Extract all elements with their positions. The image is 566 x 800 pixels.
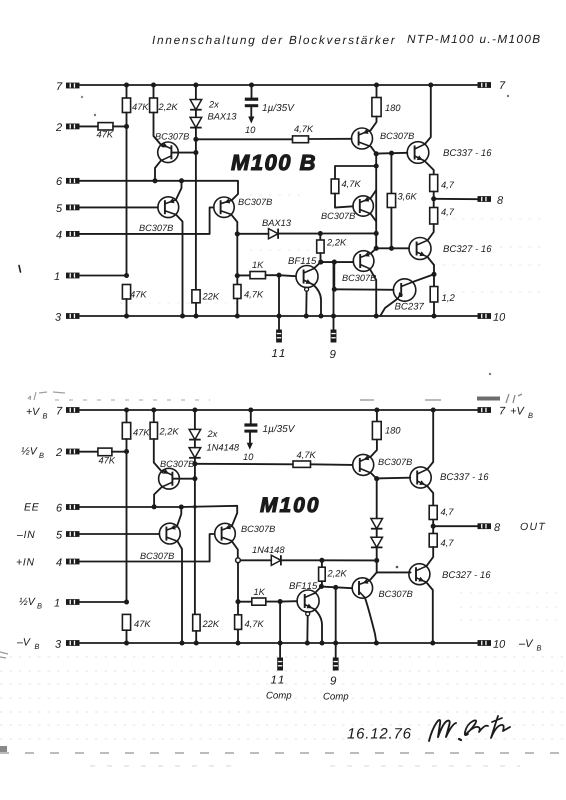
pin 4 left connector (M100B) — [66, 231, 80, 237]
node divider/pin1 (M100) — [124, 599, 129, 604]
wire Q17 collector — [427, 410, 433, 469]
resistor 1K (M100) — [252, 598, 266, 605]
wire bias vertical (M100) — [194, 464, 196, 615]
stray mark speck — [81, 96, 83, 98]
node top-rail/diodes (M100) — [192, 407, 197, 412]
node X collector/diode — [235, 231, 240, 236]
node Q11 collector/EE line — [152, 504, 157, 509]
wire diode to X2 — [278, 233, 320, 235]
pin 9 connector (M100) — [333, 658, 339, 671]
wire Q10 collector — [427, 257, 434, 275]
wire collector node to BC337 base (M100) — [377, 477, 411, 480]
wire Q12 collector — [371, 473, 377, 479]
wire Q1 base — [171, 152, 196, 154]
net label -VB right — [519, 639, 533, 647]
wire 1K to base node (M100) — [266, 601, 280, 603]
wire diodes to node (M100) — [376, 548, 378, 561]
wire 2.2K upper lead — [153, 85, 155, 98]
wire diode chain upper lead — [195, 85, 197, 99]
transistor Q1 BC307B (M100B) — [158, 142, 179, 163]
wire Q1 collector — [155, 161, 161, 181]
wire loop left — [335, 166, 376, 179]
pin 8 right connector (M100) — [478, 523, 492, 529]
node 3.6K/BC327 base — [389, 246, 394, 251]
node Q1 collector/pin6 line — [152, 178, 157, 183]
wire 4.7 to pin8 node — [433, 192, 435, 208]
pin 8 right connector (M100B) — [478, 196, 492, 202]
wire node X2 to vertical — [320, 232, 376, 234]
net label +VB right — [511, 407, 525, 415]
resistor 47K divider lower (M100) — [122, 614, 130, 630]
node top-rail/divider (M100) — [124, 407, 129, 412]
transistor Q14 BC307B diff-right (M100) — [215, 523, 236, 544]
node BF115 emitter/bottom-rail — [318, 313, 323, 318]
pin 11 connector (M100) — [277, 658, 283, 671]
wire diode chain upper lead (M100) — [194, 410, 196, 429]
diode D5 1N4148 (M100) — [189, 448, 201, 458]
node diff emitters — [179, 178, 184, 183]
node Q4 collector/bottom-rail — [180, 313, 185, 318]
wire Q7 emitter — [371, 248, 377, 253]
resistor 22K bias (M100) — [193, 614, 200, 631]
transistor Q6 BF115 (M100B) — [296, 266, 318, 288]
transistor Q10 BC327-16 (M100B) — [409, 238, 431, 260]
node pin8 (M100) — [431, 524, 436, 529]
node top-rail/diodes — [193, 82, 198, 87]
wire diode to 2.2K top (M100) — [281, 559, 322, 561]
node diode anode open (M100) — [236, 558, 241, 563]
pin 3 left connector (M100) — [66, 640, 80, 646]
wire to Q7 base — [321, 261, 354, 263]
transistor Q12 BC307B (M100) — [353, 454, 374, 475]
node Q7 emitter junction — [374, 246, 379, 251]
pin 6 left connector (M100B) — [66, 178, 80, 184]
node vertical/233 — [374, 231, 379, 236]
pin 2 left connector (M100B) — [66, 124, 80, 130]
wire 2.2K to Q1 emitter (M100) — [154, 439, 163, 473]
wire Q11 base — [172, 478, 195, 480]
pin 4 left connector (M100) — [66, 559, 80, 565]
resistor 4,7 lower (M100) — [429, 534, 437, 548]
wire left diff emitter — [176, 181, 182, 200]
wire divider upper lead — [126, 85, 128, 98]
wire bias node to 4.7K (M100) — [195, 463, 293, 466]
node shield/bottom-rail — [304, 313, 309, 318]
node 4.7K/bottom-rail (M100) — [235, 640, 240, 645]
node divider/pin1 — [124, 273, 129, 278]
resistor 1K (M100B) — [250, 272, 266, 279]
wire Q16 emitter — [370, 572, 377, 580]
node Q12 collector (M100) — [374, 476, 379, 481]
node BF115 emitter/bottom-rail (M100) — [319, 640, 324, 645]
node 1.2/bottom-rail — [431, 313, 436, 318]
net label +IN — [17, 558, 34, 565]
node 2.2K bottom — [318, 260, 323, 265]
transistor Q5 BC307B diff-right (M100B) — [214, 197, 234, 217]
node 22K/bottom-rail — [193, 313, 198, 318]
resistor 22K bias (M100B) — [192, 290, 200, 303]
transistor Q13 BC307B diff-left (M100) — [159, 523, 180, 544]
node pin8 — [431, 196, 436, 201]
transistor Q17 BC337-16 (M100) — [410, 467, 431, 488]
pin 7 right connector (M100) — [478, 407, 492, 413]
resistor 4,7 upper (M100) — [429, 506, 437, 520]
wire Q13 collector — [178, 541, 183, 643]
resistor 47K pin2 (M100) — [98, 448, 112, 456]
resistor 2,2K VAS (M100B) — [319, 234, 321, 241]
transistor Q3 BC307B (M100B) — [353, 196, 373, 216]
diode D6 (M100) — [371, 519, 383, 529]
wire pin2 feed — [80, 125, 99, 127]
node pin9/bottom-rail (M100) — [333, 640, 338, 645]
pin 5 left connector (M100) — [66, 531, 80, 537]
wire Q7 collector — [370, 269, 377, 316]
node 1K junction — [235, 273, 240, 278]
wire diode link (M100) — [376, 529, 378, 537]
resistor 2,2K VAS (M100) — [321, 560, 323, 567]
stray mark left edge — [19, 266, 21, 273]
wire X vertical — [236, 234, 238, 276]
pin 2 left connector (M100) — [66, 449, 80, 455]
node top-rail/divider — [124, 82, 129, 87]
wire Q8 collector — [413, 274, 434, 282]
node BF115 base — [276, 273, 281, 278]
wire 2.2K upper lead (M100) — [153, 410, 155, 422]
wire pin5 line (M100) — [80, 533, 160, 535]
node pin9 top (M100) — [333, 585, 338, 590]
net label 1/2VB pin1 — [19, 598, 35, 605]
wire pin11 riser (M100) — [279, 602, 281, 657]
node Q8 base corner — [332, 287, 337, 292]
wire bottom rail -V (M100B) — [80, 315, 477, 317]
wire 180 to Q12 emitter (M100) — [371, 440, 377, 457]
BF115 shield lead — [305, 287, 309, 291]
pin 1 left connector (M100B) — [66, 273, 80, 279]
transistor Q7 BC307B (M100B) — [353, 251, 374, 272]
wire to diode chain (M100) — [376, 479, 378, 519]
wire pin1 line (M100) — [80, 601, 127, 603]
node pin11/bottom-rail (M100) — [278, 640, 283, 645]
node Q13 collector/bottom-rail — [179, 640, 184, 645]
diode D2 BAX13 (M100B) — [190, 117, 202, 127]
resistor 180 (M100) — [372, 422, 381, 440]
wire 3.6K lower lead — [390, 208, 392, 249]
node Q17 collector/top-rail — [431, 407, 436, 412]
wire bias vertical — [195, 139, 197, 289]
resistor 4,7K emitter (M100B) — [236, 276, 238, 285]
transistor Q16 BC307B (M100) — [352, 578, 372, 598]
wire pin9 riser (M100) — [335, 587, 337, 657]
node divider/bottom-rail — [124, 313, 129, 318]
wire emitter link — [181, 506, 237, 526]
resistor 4,7K emitter (M100) — [237, 602, 239, 615]
resistor 4,7K Q12-base (M100) — [293, 461, 311, 467]
pin 7 left connector (M100B) — [66, 83, 80, 89]
pin 5 left connector (M100B) — [66, 205, 80, 211]
node 4.7K/bottom-rail — [235, 313, 240, 318]
resistor 2,2K first stage (M100B) — [150, 98, 158, 113]
wire Q18 collector (M100) — [426, 582, 433, 643]
node top-rail/cap (M100) — [248, 407, 253, 412]
pin 10 right connector (M100) — [478, 640, 492, 646]
circuit title M100B — [231, 155, 314, 171]
wire to 1K (M100) — [238, 601, 252, 603]
wire pin11 riser (M100B) — [278, 275, 280, 329]
wire pin8 — [434, 198, 478, 200]
wire Q4 collector — [176, 215, 183, 316]
wire top rail +V (M100B) — [80, 84, 478, 86]
signature squiggle — [429, 720, 456, 741]
wire Q3 emitter — [371, 190, 377, 198]
node shield/bottom-rail (M100) — [305, 640, 310, 645]
wire bias node to 4.7K — [196, 138, 293, 140]
node top-rail/cap — [249, 82, 254, 87]
wire 180 upper lead — [376, 85, 378, 98]
wire bottom rail -VB (M100) — [80, 642, 477, 644]
node 3.6K top — [389, 151, 394, 156]
wire Q2 collector to node — [371, 147, 376, 154]
wire BC327 base (M100) — [377, 560, 411, 572]
resistor 47K pin2 (M100B) — [98, 123, 113, 130]
transistor Q15 BF115 (M100) — [297, 590, 319, 612]
node 2.2K top (M100) — [319, 558, 324, 563]
node pin11/bottom-rail — [276, 313, 281, 318]
wire 4.7K to Q2 base — [309, 138, 352, 140]
wire 3.6K upper lead — [390, 153, 392, 193]
label 2x BAX13 — [209, 101, 219, 108]
capacitor C1 1u/35V (M100B) — [251, 85, 253, 98]
wire Q8 emitter — [381, 299, 398, 316]
wire main vertical — [375, 154, 377, 249]
net label -VB — [17, 638, 31, 645]
wire 4.7 to BC327 (M100) — [426, 547, 433, 566]
wire 22K lower lead — [195, 303, 197, 316]
node BF115 base (M100) — [278, 599, 283, 604]
resistor 4,7 upper (M100B) — [430, 175, 438, 192]
node bias top — [193, 137, 198, 142]
node Q16 collector/bottom-rail — [374, 640, 379, 645]
net label EE — [24, 503, 39, 510]
pin 10 right connector (M100B) — [478, 313, 492, 319]
wire 22K lower lead (M100) — [195, 631, 197, 643]
wire node to diode-chain bottom (M100) — [322, 559, 377, 561]
node diff emitters (M100) — [179, 504, 184, 509]
wire pin9 riser (M100B) — [333, 262, 335, 329]
resistor 3,6K (M100B) — [387, 194, 395, 208]
node divider/bottom-rail (M100) — [124, 640, 129, 645]
node bias top (M100) — [192, 461, 197, 466]
node Q1 base junction — [193, 150, 198, 155]
decorative scan artifacts — [443, 218, 545, 220]
node bias/EE crossing — [193, 505, 197, 509]
wire BF115 emitter — [313, 285, 321, 316]
wire loop to Q3 base — [335, 194, 353, 208]
transistor Q9 BC337-16 (M100B) — [407, 142, 429, 164]
label 2x 1N4148 — [207, 431, 217, 438]
wire X to diode — [237, 233, 268, 235]
resistor 47K divider lower (M100B) — [122, 285, 130, 300]
wire Q5 collector — [231, 214, 237, 234]
capacitor C2 1u/35V (M100) — [250, 410, 252, 423]
pin 1 left connector (M100) — [66, 599, 80, 605]
diode D3 BAX13 horizontal (M100B) — [269, 229, 279, 239]
wire to Q16 base (M100) — [321, 587, 352, 589]
wire 4.7 to pin8 node (M100) — [432, 520, 434, 534]
node diode bottom (M100) — [374, 558, 379, 563]
pin 6 left connector (M100) — [66, 504, 80, 510]
node divider/pin2 — [124, 124, 129, 129]
node divider/pin2 (M100) — [124, 449, 129, 454]
net label +VB left — [27, 408, 40, 415]
node output junction — [431, 272, 436, 277]
node Q9 collector/top-rail — [428, 82, 433, 87]
wire Q8 base — [334, 288, 393, 291]
node Q2 collector — [374, 151, 379, 156]
resistor 4,7 lower (M100B) — [430, 208, 438, 225]
wire Q16 collector — [365, 598, 376, 643]
title text — [153, 35, 396, 46]
date annotation — [347, 728, 411, 739]
wire BC327 base — [376, 247, 409, 249]
wire pin6 line — [80, 181, 239, 201]
wire divider mid — [126, 113, 128, 276]
wire divider mid (M100) — [126, 439, 128, 602]
wire base node to BF115 — [279, 275, 296, 276]
diode D1 BAX13 (M100B) — [190, 100, 202, 110]
node 1K junction (M100) — [235, 599, 240, 604]
wire Q14 collector — [232, 541, 238, 561]
resistor 180 (M100B) — [372, 98, 381, 117]
wire 180 upper lead (M100) — [376, 410, 378, 422]
transistor Q2 BC307B (M100B) — [352, 128, 373, 149]
node top-rail/2.2K — [151, 82, 156, 87]
wire pin4 line (M100) — [80, 534, 215, 562]
node Q7 collector/bottom-rail — [374, 313, 379, 318]
wire BF115 emitter (M100) — [314, 609, 322, 643]
pin 9 connector (M100B) — [331, 330, 337, 343]
wire Q17 emitter — [427, 486, 433, 506]
wire pin2 to divider — [113, 125, 127, 127]
transistor Q18 BC327-16 (M100) — [409, 564, 430, 585]
node BAX13 cathode — [318, 231, 323, 236]
wire Y to diode (M100) — [240, 559, 271, 561]
wire divider lower lead (M100) — [126, 630, 128, 643]
node pin9/bottom-rail — [331, 313, 336, 318]
node top-rail/180 (M100) — [374, 407, 379, 412]
wire pin4 line — [80, 207, 214, 234]
transistor Q8 BC237 (M100B) — [393, 279, 415, 301]
wire Q9 emitter — [425, 161, 434, 175]
wire BF115 collector — [314, 262, 321, 269]
wire 1K to base node — [266, 274, 280, 276]
wire divider upper lead (M100) — [126, 410, 128, 423]
wire pin2 to divider (M100) — [112, 451, 127, 453]
resistor 47K divider upper (M100) — [122, 423, 130, 440]
resistor 2,2K first stage (M100) — [150, 422, 157, 439]
pin 7 right connector (M100B) — [478, 82, 492, 88]
pin 7 left connector (M100) — [66, 407, 80, 413]
transistor Q4 BC307B diff-left (M100B) — [158, 197, 179, 218]
resistor 4,7K Q2-base (M100B) — [293, 136, 309, 143]
wire Y vertical (M100) — [237, 563, 239, 602]
node Q18 collector/bottom-rail — [430, 640, 435, 645]
wire Q3 collector — [371, 214, 377, 222]
node loop top — [374, 163, 379, 168]
wire 4.7K to Q12 base (M100) — [311, 463, 353, 466]
diode D7 (M100) — [371, 537, 383, 547]
resistor 1,2 (M100B) — [433, 274, 435, 286]
wire top rail +VB (M100) — [80, 409, 478, 411]
wire Q8 base feed — [333, 262, 335, 289]
net label OUT — [521, 523, 546, 530]
diode D4 1N4148 (M100) — [189, 429, 201, 439]
pin 11 connector (M100B) — [276, 330, 282, 343]
node 2.2K bottom (M100) — [319, 584, 324, 589]
wire between diodes (M100) — [194, 440, 196, 447]
wire pin2 feed (M100) — [80, 451, 98, 453]
wire divider lower lead — [126, 299, 128, 316]
wire 180 to Q2 emitter — [371, 117, 377, 131]
wire pin6 EE line — [80, 506, 182, 508]
wire 4.7 to BC327 — [428, 224, 434, 240]
node top-rail/2.2K (M100) — [151, 407, 156, 412]
wire pin5 line — [80, 206, 158, 208]
resistor 47K divider upper (M100B) — [122, 98, 130, 113]
wire left diff emitter (M100) — [177, 507, 181, 527]
wire base node to BF115 (M100) — [280, 600, 297, 602]
wire to 1K — [237, 274, 250, 276]
node top-rail/180 — [374, 82, 379, 87]
node 22K/bottom-rail (M100) — [194, 640, 199, 645]
BF115 shield lead (M100) — [306, 612, 310, 616]
wire BF115 collector (M100) — [315, 586, 322, 593]
wire 2.2K to Q1 emitter — [154, 113, 163, 147]
wire diode to node (M100) — [194, 458, 196, 464]
node pin9 top — [332, 260, 337, 265]
pin 3 left connector (M100B) — [66, 313, 80, 319]
transistor Q11 BC307B (M100) — [159, 468, 180, 489]
node Q11 base junction (M100) — [192, 476, 197, 481]
wire diode to node — [195, 128, 197, 139]
net label 1/2VB pin2 — [21, 447, 37, 454]
net label -IN — [17, 531, 35, 538]
resistor 4,7K loop (M100B) — [331, 179, 339, 194]
circuit title M100 — [260, 497, 318, 512]
wire pin8 (M100) — [433, 525, 477, 527]
stray mark dot — [507, 95, 509, 97]
wire pin1 line — [80, 275, 127, 277]
wire collector node to BC337 base — [376, 152, 407, 155]
wire between diodes — [195, 110, 197, 117]
diode D8 1N4148 horizontal (M100) — [271, 555, 281, 565]
wire Q9 collector — [425, 85, 431, 144]
wire Q11 collector — [154, 487, 162, 507]
